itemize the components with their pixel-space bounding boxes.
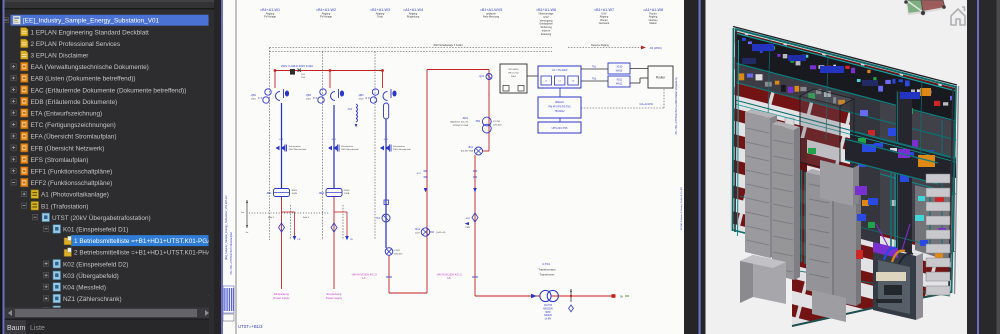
colored component specks in top band	[742, 38, 746, 41]
tree row 14: EFF2 (Funktionsschaltpläne)	[11, 180, 16, 185]
svg-text:NA2XS2Y 3x1x70: NA2XS2Y 3x1x70	[451, 120, 469, 123]
svg-text:Ringleitung: Ringleitung	[407, 16, 420, 19]
middle tower 1	[806, 172, 832, 296]
svg-text:EPLAN Software & Service GmbH: EPLAN Software & Service GmbH & Co. KG	[680, 187, 683, 230]
tree row 19: 1 Betriebsmittelliste =+B1+HD1	[71, 235, 209, 246]
bay3 TA1 meter circle	[382, 214, 390, 222]
svg-text:2 EPLAN Professional Services: 2 EPLAN Professional Services	[31, 41, 121, 48]
svg-text:K01 (Einspeisefeld D1): K01 (Einspeisefeld D1)	[63, 227, 128, 234]
tree row 12: EFS (Stromlaufplan)	[11, 157, 16, 162]
svg-text:-QB1: -QB1	[250, 94, 256, 97]
red ring rectangle	[426, 70, 428, 294]
svg-text:-KF1: -KF1	[383, 139, 389, 141]
svg-text:NZ1 (Zählerschrank): NZ1 (Zählerschrank)	[63, 296, 122, 303]
small teal connector lines right	[929, 190, 931, 250]
tree panel bg	[5, 10, 215, 305]
svg-text:K03 (Übergabefeld): K03 (Übergabefeld)	[63, 272, 119, 280]
svg-text:Netz-Messung: Netz-Messung	[483, 16, 500, 19]
tree row 25: HB1 (Schaltgerätekombination)	[44, 307, 49, 312]
svg-text:1-XD1: 1-XD1	[394, 250, 401, 252]
svg-text:-XD11: -XD11	[616, 80, 623, 82]
specks on right wall	[888, 128, 898, 136]
svg-text:PEN: PEN	[466, 227, 471, 229]
svg-text:-TB2: -TB2	[475, 121, 481, 123]
svg-text:EFA (Übersicht Stromlaufplan): EFA (Übersicht Stromlaufplan)	[31, 133, 117, 141]
bay 3 disconnector+breaker cluster	[372, 89, 378, 95]
red feeder verticals below CTs	[281, 197, 283, 290]
home icon	[951, 7, 965, 25]
tree row 7: EDB (Erläuternde Dokumente)	[11, 99, 16, 104]
KF measuring symbols row y=148	[276, 146, 280, 151]
white schematic page	[223, 0, 684, 334]
svg-text:=B1+A1-W2: =B1+A1-W2	[316, 8, 336, 12]
svg-text:EFF2 (Funktionsschaltpläne): EFF2 (Funktionsschaltpläne)	[31, 180, 113, 187]
svg-text:50Hz: 50Hz	[545, 312, 551, 314]
left margin dense info block bottom	[223, 286, 234, 313]
svg-text:PM 4F-UPS-PS-TN2: PM 4F-UPS-PS-TN2	[548, 106, 571, 109]
svg-text:WH10: WH10	[616, 70, 623, 72]
svg-text:ETA (Entwurfszeichnung): ETA (Entwurfszeichnung)	[31, 111, 103, 118]
svg-text:=B1+A1-W3: =B1+A1-W3	[370, 8, 390, 12]
svg-text:WH11: WH11	[616, 83, 623, 85]
ticks on 427 line	[424, 170, 428, 172]
svg-text:Schutzrelais: Schutzrelais	[289, 145, 302, 148]
teal frame rails along top	[735, 29, 956, 87]
svg-text:=B1+HD1+UTST&EFS2/4.a 20kV-St: =B1+HD1+UTST&EFS2/4.a 20kV-Station Einsp…	[675, 77, 678, 135]
bay3 fuse cartridge symbol	[384, 103, 389, 119]
svg-text:EDB (Erläuternde Dokumente): EDB (Erläuternde Dokumente)	[31, 99, 118, 106]
motor circle on x=427	[421, 228, 429, 236]
svg-text:Liste: Liste	[30, 325, 45, 332]
svg-text:UTST=+B1/3: UTST=+B1/3	[238, 324, 263, 329]
bay 1 drop	[274, 71, 276, 89]
svg-text:20kV 3~50Hz 20kV 0.4kA: 20kV 3~50Hz 20kV 0.4kA	[281, 64, 313, 68]
svg-text:200/5: 200/5	[344, 190, 350, 192]
tap mark after transformer	[570, 289, 572, 302]
svg-text:[EE]_Industry_Sample_Energy_Su: [EE]_Industry_Sample_Energy_Substation_V…	[224, 195, 228, 260]
svg-text:Feld 2: Feld 2	[303, 217, 310, 219]
bay 1 disconnector+breaker cluster	[265, 89, 271, 95]
svg-text:PV-Anlage: PV-Anlage	[320, 16, 332, 19]
separator schematic/3d	[684, 0, 706, 334]
measurement dotted line + axis	[246, 200, 248, 228]
tree row 0: [EE]_Industry_Sample_Energy_Su	[11, 15, 210, 26]
svg-text:Station: Station	[649, 22, 657, 25]
tree row 3: 3 EPLAN Disclaimer	[21, 51, 29, 60]
svg-text:20kV-Schaltanlage 3 Felder: 20kV-Schaltanlage 3 Felder	[433, 44, 463, 47]
vertical scrollbar of tree	[209, 10, 215, 304]
svg-text:=B1+A1-W6: =B1+A1-W6	[536, 8, 556, 12]
pedestal block bottom-left	[753, 255, 786, 304]
tree row 1: 1 EPLAN Engineering Standard D	[21, 28, 29, 37]
bay 2 disconnector+breaker cluster	[320, 89, 326, 95]
tree row 11: EFB (Übersicht Netzwerk)	[11, 145, 16, 150]
TN1 TN2 boxes	[608, 63, 630, 74]
svg-text:3 EPLAN Disclaimer: 3 EPLAN Disclaimer	[31, 53, 90, 60]
svg-text:Schutzrelais: Schutzrelais	[393, 145, 406, 148]
svg-text:UTST (20kV Übergabetrafostatio: UTST (20kV Übergabetrafostation)	[52, 214, 151, 222]
svg-text:-KF1: -KF1	[279, 139, 285, 141]
tree row 18: K01 (Einspeisefeld D1)	[44, 226, 49, 231]
page frame left border	[235, 0, 237, 334]
svg-text:-QA1: -QA1	[479, 75, 485, 78]
red drop passes to box	[488, 93, 490, 96]
wireframe transparent box	[800, 96, 840, 172]
tree row 22: K03 (Übergabefeld)	[44, 273, 49, 278]
svg-text:L/F: L/F	[447, 277, 451, 280]
right large drive device	[873, 246, 916, 320]
svg-text:EAC (Erläuternde Dokumente (Do: EAC (Erläuternde Dokumente (Dokumente be…	[31, 87, 187, 94]
dark red busbar block	[796, 138, 807, 184]
svg-text:200/5: 200/5	[292, 190, 298, 192]
svg-text:-U1 / TN-400V: -U1 / TN-400V	[551, 69, 567, 72]
svg-text:Zuleitung: Zuleitung	[541, 33, 552, 36]
svg-text:20/0.4kV: 20/0.4kV	[394, 253, 403, 255]
svg-text:L/F: L/F	[362, 277, 366, 280]
svg-text:B1 (Trafostation): B1 (Trafostation)	[41, 203, 88, 210]
small circle on 489 drop	[486, 74, 492, 80]
second device row (left half)	[738, 73, 744, 80]
svg-text:4-T01: 4-T01	[542, 262, 550, 266]
svg-text:-BE1: -BE1	[266, 192, 272, 195]
svg-text:-BE2: -BE2	[319, 192, 325, 195]
branch arms with arrows	[282, 211, 295, 213]
middle pedestal	[812, 290, 846, 322]
svg-text:20kV: 20kV	[511, 76, 517, 78]
tree row 15: A1 (Photovoltaikanlage)	[22, 191, 27, 196]
bottom red bus to transformer	[475, 295, 613, 297]
svg-text:=B1+A1-W7: =B1+A1-W7	[594, 8, 614, 12]
svg-text:630kVA: 630kVA	[544, 314, 552, 317]
svg-text:=B1+A1-WV5: =B1+A1-WV5	[480, 8, 503, 12]
svg-text:=B1+A1-W1: =B1+A1-W1	[260, 8, 280, 12]
bottom frame rail	[792, 292, 951, 326]
svg-text:Einspeisung: Einspeisung	[274, 292, 289, 296]
svg-text:TN1: TN1	[592, 67, 597, 69]
right window strip	[967, 0, 1000, 334]
svg-text:10VA: 10VA	[292, 192, 298, 195]
CT boxes y=190	[274, 189, 290, 197]
long blue bars in top band	[752, 44, 774, 51]
svg-text:20kV: 20kV	[306, 99, 312, 101]
mounting plate with red/white hazard stripes	[733, 28, 956, 326]
plate top dark component band	[735, 32, 956, 122]
svg-text:20kV Messtechnik: 20kV Messtechnik	[289, 148, 308, 151]
blue bay feeder lines	[281, 103, 283, 189]
svg-text:uk 6%: uk 6%	[545, 319, 551, 321]
left window edge	[0, 0, 3, 334]
svg-text:10VA: 10VA	[344, 192, 350, 195]
dashed verticals (bay dividers)	[269, 48, 271, 241]
svg-text:-MA1: -MA1	[415, 228, 421, 231]
right horizontal beam with devices	[845, 138, 938, 184]
svg-text:ETC (Fertigungszeichnungen): ETC (Fertigungszeichnungen)	[31, 122, 116, 129]
svg-text:=A1+A2-W10: =A1+A2-W10	[639, 103, 654, 106]
horizontal scrollbar	[5, 308, 215, 319]
tree row 2: 2 EPLAN Professional Services	[21, 39, 29, 48]
bay 2 drop	[329, 71, 331, 89]
dark vertical post right	[896, 90, 912, 254]
teal din rails vertical	[801, 170, 803, 262]
dashed enclosure box (double top line)	[270, 47, 553, 49]
svg-text:20kV Messtechnik: 20kV Messtechnik	[341, 148, 360, 151]
right frame edge	[952, 86, 957, 293]
svg-text:Trafo: Trafo	[377, 16, 383, 19]
UPS blue box	[538, 66, 581, 88]
scattered small components mid plate	[857, 214, 866, 221]
svg-text:UPS 24V PS5: UPS 24V PS5	[552, 127, 568, 130]
svg-text:KF1-WSU: KF1-WSU	[509, 69, 519, 71]
bottom tab bar: Baum / Liste	[5, 319, 215, 334]
top right black control box	[500, 64, 527, 93]
svg-text:Baum: Baum	[7, 325, 25, 332]
left gray tower 2	[772, 124, 794, 280]
svg-text:-X1 (W01): -X1 (W01)	[649, 46, 662, 50]
svg-text:K04 (Messfeld): K04 (Messfeld)	[63, 285, 106, 292]
BA1 branch circle at (478,151)	[475, 147, 483, 155]
svg-text:EAB (Listen (Dokumente betreff: EAB (Listen (Dokumente betreffend))	[31, 76, 136, 83]
svg-text:PV-Anlage: PV-Anlage	[264, 16, 276, 19]
inductor stack (voltage transformer) bay3	[356, 104, 357, 108]
tree row 24: NZ1 (Zählerschrank)	[44, 296, 49, 301]
navigation view cube top-right	[904, 0, 946, 15]
small transformer on 489	[482, 117, 491, 126]
bay 3 drop	[382, 71, 384, 89]
tree row 4: EAA (Verwaltungstechnische Dok	[11, 64, 16, 69]
right terminal ladder column	[926, 174, 950, 183]
tree row 21: K02 (Einspeisefeld D2)	[44, 261, 49, 266]
red arrow at end of dashed run	[641, 46, 646, 50]
svg-text:A 0.4kV 35A: A 0.4kV 35A	[461, 149, 474, 152]
tree row 17: UTST (20kV Übergabetrafostatio	[33, 215, 38, 220]
svg-text:12/20kV 12.5kA: 12/20kV 12.5kA	[453, 124, 469, 127]
svg-text:1 Betriebsmittelliste =+B1+HD1: 1 Betriebsmittelliste =+B1+HD1+UTST.K01-…	[74, 238, 215, 245]
svg-text:AM-T66: AM-T66	[544, 304, 553, 307]
tree row 23: K04 (Messfeld)	[44, 284, 49, 289]
svg-text:-TA1: -TA1	[375, 217, 381, 220]
tree row 5: EAB (Listen (Dokumente betreff	[11, 75, 16, 80]
svg-text:-FC2: -FC2	[416, 173, 422, 175]
symbols on 475	[473, 170, 477, 172]
svg-text:20kV Messtechnik: 20kV Messtechnik	[393, 148, 412, 151]
svg-text:EAA (Verwaltungstechnische Dok: EAA (Verwaltungstechnische Dokumente)	[31, 64, 149, 71]
WAGO box	[538, 97, 581, 118]
svg-text:EFB (Übersicht Netzwerk): EFB (Übersicht Netzwerk)	[31, 144, 105, 152]
middle tower 2	[834, 188, 856, 306]
svg-text:Transformer: Transformer	[539, 273, 554, 277]
dashed link UPS->Router	[581, 107, 664, 109]
svg-text:[EE]_Industry_Sample_Energy_Su: [EE]_Industry_Sample_Energy_Substation_V…	[23, 18, 160, 25]
tree row 9: ETC (Fertigungszeichnungen)	[11, 122, 16, 127]
PS box	[538, 122, 581, 133]
left gray tower 1	[745, 112, 770, 258]
svg-text:ST 250: ST 250	[493, 121, 501, 123]
vertical x=475 down to bottom bus	[474, 155, 476, 296]
svg-text:1m: 1m	[241, 212, 244, 214]
svg-text:Transformator: Transformator	[538, 268, 556, 272]
mid-right dark band	[850, 130, 956, 178]
svg-text:WAGO: WAGO	[555, 100, 565, 104]
end arrow of red line	[612, 294, 616, 298]
small black symbol on bus	[290, 69, 295, 75]
svg-text:-XD10: -XD10	[616, 67, 623, 69]
20kV red bus bar	[275, 70, 383, 72]
gray box upper mid-right	[820, 160, 853, 206]
right dashed run with red arrow	[568, 47, 641, 49]
svg-text:RF-LC/YQ: RF-LC/YQ	[508, 73, 519, 75]
tree row 16: B1 (Trafostation)	[22, 203, 27, 208]
svg-text:-WA1: -WA1	[462, 117, 469, 120]
svg-text:TN2: TN2	[592, 79, 597, 81]
svg-text:-XD2: -XD2	[465, 218, 471, 220]
svg-text:Power supply: Power supply	[326, 296, 343, 300]
svg-text:1 EPLAN Engineering Standard D: 1 EPLAN Engineering Standard Deckblatt	[31, 29, 150, 36]
svg-text:Router: Router	[656, 76, 667, 80]
3D viewport background	[706, 0, 968, 334]
svg-text:750-8212: 750-8212	[554, 110, 565, 113]
svg-text:2 Betriebsmittelliste =+B1+HD1: 2 Betriebsmittelliste =+B1+HD1+UTST.K01-…	[74, 250, 215, 257]
svg-text:SH: SH	[620, 297, 624, 299]
svg-text:-KF1: -KF1	[331, 139, 337, 141]
cross circle symbol transition bay3	[385, 248, 393, 256]
svg-text:K02 (Einspeisefeld D2): K02 (Einspeisefeld D2)	[63, 261, 128, 268]
tree row 8: ETA (Entwurfszeichnung)	[11, 110, 16, 115]
svg-text:EFF1 (Funktionsschaltpläne): EFF1 (Funktionsschaltpläne)	[31, 169, 113, 176]
left frame edge	[731, 28, 732, 231]
svg-text:Feld 1: Feld 1	[268, 217, 275, 219]
svg-text:20/0.4kV: 20/0.4kV	[493, 124, 502, 126]
white cable duct column	[785, 118, 794, 252]
svg-text:=A1+A1-W4: =A1+A1-W4	[403, 8, 423, 12]
3d viewport	[706, 0, 968, 334]
svg-text:20kV: 20kV	[251, 99, 257, 101]
svg-text:-QB2: -QB2	[305, 94, 311, 97]
svg-text:Netzwerk: Netzwerk	[599, 22, 610, 25]
svg-text:EFS (Stromlaufplan): EFS (Stromlaufplan)	[31, 157, 89, 164]
svg-text:-QB3: -QB3	[358, 94, 364, 97]
top toolbar sliver over tree	[0, 0, 222, 2]
right dark wall	[850, 94, 956, 252]
svg-text:(1xPh+N): (1xPh+N)	[436, 232, 446, 234]
svg-text:=A1+A1-W8: =A1+A1-W8	[643, 8, 663, 12]
svg-text:Einspeisung: Einspeisung	[327, 292, 342, 296]
4-T01 transformer	[531, 294, 537, 299]
drive top wires	[884, 248, 896, 260]
svg-text:Power supply: Power supply	[273, 296, 290, 300]
svg-text:Reserve Abgang: Reserve Abgang	[591, 44, 609, 47]
tree row 20: 2 Betriebsmittelliste =+B1+HD1	[64, 249, 72, 256]
svg-text:-TA2: -TA2	[347, 108, 353, 111]
svg-text:Schutzrelais: Schutzrelais	[341, 145, 354, 148]
svg-text:20kV: 20kV	[359, 99, 365, 101]
svg-text:400/230V: 400/230V	[543, 308, 553, 310]
tree row 13: EFF1 (Funktionsschaltpläne)	[11, 168, 16, 173]
separator tree/schematic	[214, 0, 224, 334]
secondary band left half	[735, 64, 850, 112]
extra teal frame rails	[735, 100, 956, 158]
svg-text:4017: 4017	[415, 232, 421, 234]
bay3 M1 tap box	[384, 200, 388, 204]
svg-text:-BA1: -BA1	[468, 146, 474, 149]
tree row 6: EAC (Erläuternde Dokumente (Do	[11, 87, 16, 92]
Router box	[648, 66, 673, 88]
svg-text:=B1+HD1+UTST&EFS2/4 Stromlauf: =B1+HD1+UTST&EFS2/4 Stromlaufplan	[230, 231, 233, 275]
tree row 10: EFA (Übersicht Stromlaufplan)	[11, 133, 16, 138]
svg-text:A1 (Photovoltaikanlage): A1 (Photovoltaikanlage)	[41, 192, 109, 199]
